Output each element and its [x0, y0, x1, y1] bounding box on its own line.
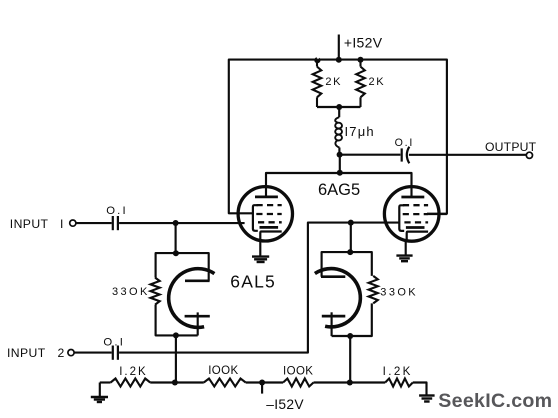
svg-text:O.I: O.I [106, 205, 128, 217]
svg-text:33OK: 33OK [112, 286, 150, 298]
svg-text:6AL5: 6AL5 [230, 271, 276, 291]
svg-text:IOOK: IOOK [283, 365, 313, 377]
svg-text:2K: 2K [325, 76, 342, 88]
svg-text:INPUT: INPUT [7, 346, 46, 360]
svg-text:I.2K: I.2K [119, 366, 147, 378]
svg-text:O.I: O.I [103, 337, 125, 349]
svg-text:SeekIC.com: SeekIC.com [438, 390, 552, 412]
svg-text:I7μh: I7μh [345, 124, 375, 139]
svg-text:I.2K: I.2K [383, 365, 413, 378]
svg-text:OUTPUT: OUTPUT [485, 140, 537, 154]
svg-text:I: I [60, 217, 63, 231]
svg-text:6AG5: 6AG5 [318, 181, 360, 199]
svg-text:INPUT: INPUT [10, 217, 49, 231]
svg-text:–I52V: –I52V [266, 397, 304, 412]
svg-text:2K: 2K [369, 76, 386, 88]
svg-text:O.I: O.I [395, 137, 415, 149]
svg-text:+I52V: +I52V [344, 34, 383, 50]
svg-text:IOOK: IOOK [208, 365, 238, 377]
svg-text:33OK: 33OK [380, 287, 418, 299]
svg-text:2: 2 [58, 346, 65, 360]
